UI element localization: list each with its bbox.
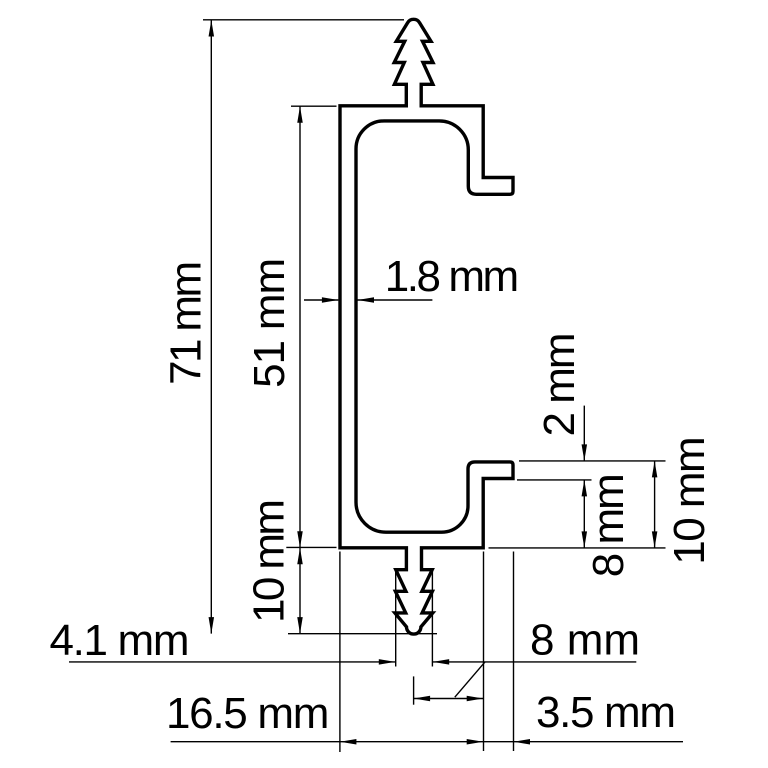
arrow line 1.8 mm left	[304, 299, 338, 301]
extension line left wall (16.5 mm)	[339, 552, 341, 753]
extension line anchor tip (71 mm / 10 mm)	[288, 633, 437, 635]
arrowhead 4.1 mm left	[379, 659, 396, 665]
arrowhead 3.5 mm right	[514, 739, 531, 745]
svg-text:10 mm: 10 mm	[245, 499, 294, 623]
extension line top edge (51 mm)	[291, 105, 337, 107]
dimension line 51 mm / 10 mm	[299, 106, 301, 633]
arrowhead 8 mm right top	[582, 480, 588, 497]
arrowhead 8 mm right bottom	[582, 531, 588, 548]
extension line anchor right (4.1 mm)	[431, 570, 433, 667]
arrowhead 51 mm bottom	[297, 531, 303, 548]
dimension line 8 mm right	[583, 480, 585, 548]
dimension line 16.5 mm / 3.5 mm	[171, 741, 683, 743]
svg-text:1.8 mm: 1.8 mm	[385, 252, 520, 301]
arrowhead 10 mm left top	[297, 548, 303, 565]
arrowhead 71 mm top	[209, 20, 215, 37]
dimension line 10 mm right	[654, 461, 656, 548]
arrow line 4.1 mm left	[69, 661, 395, 663]
arrow line 4.1 mm right / 8 mm leader	[433, 661, 637, 663]
svg-text:10 mm: 10 mm	[665, 436, 714, 564]
arrowhead 1.8 mm right	[358, 297, 375, 303]
leader diagonal 8 mm	[455, 662, 485, 697]
svg-text:4.1 mm: 4.1 mm	[50, 616, 190, 665]
extension line step wall (16.5 / 3.5 / 8 mm)	[483, 552, 485, 752]
center tick 8 mm bottom	[413, 676, 415, 704]
dimension line 8 mm bottom	[414, 698, 484, 700]
svg-text:2 mm: 2 mm	[535, 333, 584, 437]
arrow line 2 mm	[583, 406, 585, 461]
arrowhead 10 mm right top	[652, 461, 658, 478]
svg-text:8 mm: 8 mm	[530, 616, 640, 665]
rail profile cross-section outline with fir-tree anchors and hooks	[340, 19, 513, 634]
dimension line 71 mm	[210, 20, 212, 634]
arrowhead 16.5 mm left	[340, 739, 357, 745]
arrowhead 1.8 mm left	[322, 297, 339, 303]
arrowhead 10 mm left bottom	[297, 617, 303, 634]
extension line bottom edge right	[489, 547, 666, 549]
arrowhead 51 mm top	[297, 106, 303, 123]
arrowhead 16.5 mm right / 3.5 mm left	[467, 739, 484, 745]
arrow line 1.8 mm right	[358, 299, 433, 301]
svg-text:3.5 mm: 3.5 mm	[536, 688, 676, 737]
svg-text:51 mm: 51 mm	[245, 258, 294, 388]
extension line hook top edge	[519, 460, 666, 462]
arrowhead 10 mm right bottom	[652, 531, 658, 548]
svg-text:71 mm: 71 mm	[162, 261, 211, 385]
svg-text:16.5 mm: 16.5 mm	[166, 689, 329, 738]
extension line bottom edge left (51 mm / 10 mm)	[286, 546, 336, 548]
extension line hook lip step	[517, 479, 592, 481]
extension line top (71 mm)	[203, 19, 404, 21]
extension line anchor left (4.1 mm)	[395, 571, 397, 667]
arrowhead 8 mm bottom left	[414, 696, 431, 702]
extension line lip edge (3.5 mm)	[513, 552, 515, 752]
arrowhead 8 mm bottom right	[467, 696, 484, 702]
arrowhead 2 mm	[582, 444, 588, 461]
arrowhead 71 mm bottom	[209, 617, 215, 634]
arrowhead 4.1 mm right	[433, 659, 450, 665]
svg-text:8 mm: 8 mm	[584, 473, 633, 577]
